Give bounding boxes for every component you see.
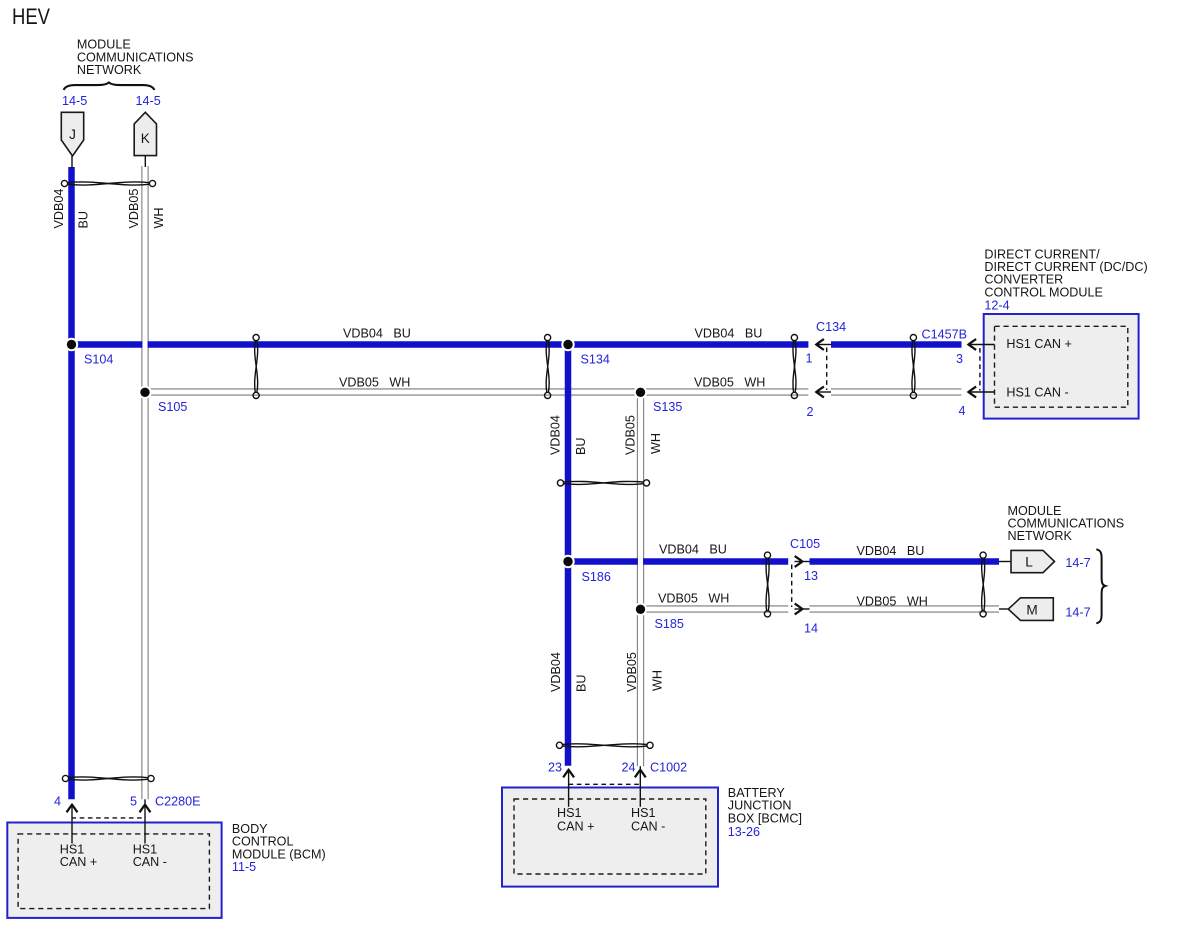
connector C2280E pin 5 arrow and stub into BCM [140, 799, 151, 843]
wire VDB04 BU row1 horizontal [72, 341, 962, 348]
svg-text:14-7: 14-7 [1065, 556, 1090, 570]
svg-text:14: 14 [804, 622, 818, 636]
twisted pair symbol top-left horizontal [61, 180, 155, 186]
connector C1457B dashed line [979, 348, 981, 391]
connector K (from 14-5) [134, 112, 156, 155]
twisted pair symbol vertical at x983 [980, 552, 986, 617]
twisted pair symbol vertical at x913 [910, 335, 916, 399]
svg-text:L: L [1025, 555, 1033, 570]
label MODULE COMMUNICATIONS NETWORK (right) [1008, 504, 1125, 543]
connector K stub wire [144, 156, 146, 168]
connector M (to 14-7) [1008, 598, 1053, 621]
connector J (from 14-5) [61, 112, 83, 156]
svg-text:VDB04 BU: VDB04 BU [695, 327, 763, 341]
svg-text:S186: S186 [582, 570, 611, 584]
pin label HS1 CAN - (BJB) [631, 806, 665, 834]
connector C134 dashed line [826, 348, 828, 391]
svg-text:BU: BU [77, 211, 91, 229]
svg-text:K: K [141, 131, 150, 146]
connector C1457B pin 3 arrow and stub into module [969, 339, 995, 350]
splice S186 [561, 555, 574, 568]
svg-text:WH: WH [649, 433, 663, 454]
svg-text:1: 1 [806, 352, 813, 366]
wire VDB05 WH mid vertical white fill [638, 392, 643, 766]
svg-text:HS1 CAN -: HS1 CAN - [1006, 385, 1068, 399]
wire label VDB04 BU (mid vertical lower) [549, 652, 589, 692]
splice S104 [65, 338, 78, 351]
svg-text:VDB04 BU: VDB04 BU [343, 327, 411, 341]
svg-text:C1002: C1002 [650, 761, 687, 775]
svg-text:14-5: 14-5 [62, 94, 87, 108]
connector C1457B pin 4 arrow and stub into module [969, 387, 995, 398]
module box DC/DC CONVERTER CONTROL MODULE [984, 314, 1139, 419]
svg-text:4: 4 [959, 404, 966, 418]
wire label VDB04 BU (left vertical top) [52, 189, 91, 229]
svg-text:2: 2 [807, 405, 814, 419]
svg-text:13-26: 13-26 [728, 825, 760, 839]
svg-text:VDB04: VDB04 [52, 189, 66, 229]
module box BATTERY JUNCTION BOX [BCMC] [502, 788, 718, 887]
label BODY CONTROL MODULE (BCM) [232, 822, 326, 861]
pin label HS1 CAN - (BCM) [133, 843, 167, 870]
label DIRECT CURRENT/DIRECT CURRENT (DC/DC) CONVERTER CONTROL MODULE [984, 247, 1147, 299]
svg-text:3: 3 [956, 352, 963, 366]
wire VDB05 WH row4 horizontal [641, 606, 1000, 612]
svg-text:S185: S185 [655, 617, 684, 631]
splice S135 [634, 386, 647, 399]
connector C105 pin 14 arrow [795, 604, 810, 615]
connector J stub wire [71, 156, 73, 168]
brace right of L and M connectors [1096, 549, 1105, 623]
svg-text:NETWORK: NETWORK [77, 63, 142, 77]
wire label VDB05 WH (left vertical top) [127, 189, 166, 229]
svg-text:4: 4 [54, 795, 61, 809]
svg-text:VDB05: VDB05 [625, 652, 639, 692]
svg-text:14-5: 14-5 [136, 94, 161, 108]
brace over J and K wires [64, 83, 155, 90]
label MODULE COMMUNICATIONS NETWORK (top) [77, 38, 194, 77]
svg-text:HS1 CAN +: HS1 CAN + [1006, 337, 1071, 351]
pin label HS1 CAN + (BJB) [557, 806, 594, 834]
svg-text:13: 13 [804, 569, 818, 583]
connector M stub wire [999, 608, 1009, 610]
svg-text:CAN +: CAN + [557, 820, 594, 834]
wire label VDB05 WH (mid vertical lower) [625, 652, 665, 692]
twisted pair symbol bottom-mid horizontal [556, 742, 653, 748]
label BATTERY JUNCTION BOX [BCMC] [728, 786, 802, 825]
svg-text:S134: S134 [581, 353, 610, 367]
splice S134 [561, 338, 574, 351]
connector C1002 dashed line [569, 783, 641, 785]
svg-text:J: J [69, 127, 76, 142]
svg-text:VDB05: VDB05 [127, 189, 141, 229]
twisted pair symbol vertical at x767 [764, 552, 770, 617]
connector C1002 pin 23 arrow and stub into BJB [563, 770, 574, 807]
svg-text:VDB05 WH: VDB05 WH [694, 376, 765, 390]
svg-text:S104: S104 [84, 353, 113, 367]
connector C134 pin 1 arrow [816, 339, 831, 350]
connector C105 dashed line [791, 565, 793, 608]
svg-text:C1457B: C1457B [922, 328, 968, 342]
wire VDB04 BU mid vertical [565, 345, 572, 766]
svg-text:WH: WH [651, 670, 665, 691]
svg-text:CAN +: CAN + [60, 855, 97, 869]
svg-text:CONTROL MODULE: CONTROL MODULE [984, 285, 1102, 299]
svg-text:VDB04 BU: VDB04 BU [857, 544, 925, 558]
svg-text:VDB05 WH: VDB05 WH [339, 376, 410, 390]
module box BODY CONTROL MODULE (BCM) [7, 823, 221, 918]
svg-text:HS1: HS1 [557, 806, 582, 820]
svg-text:23: 23 [548, 761, 562, 775]
svg-text:C134: C134 [816, 320, 846, 334]
wire label VDB04 BU (mid vertical upper) [549, 415, 589, 455]
svg-text:C105: C105 [790, 537, 820, 551]
svg-text:VDB05 WH: VDB05 WH [658, 592, 729, 606]
svg-text:VDB04 BU: VDB04 BU [659, 543, 727, 557]
connector C1002 pin 24 arrow and stub into BJB [635, 766, 646, 807]
svg-text:NETWORK: NETWORK [1008, 529, 1073, 543]
twisted pair symbol vertical at x547 [545, 335, 551, 399]
svg-text:14-7: 14-7 [1065, 606, 1090, 620]
svg-text:S105: S105 [158, 400, 187, 414]
svg-text:VDB05: VDB05 [624, 415, 638, 455]
splice S105 [138, 386, 151, 399]
svg-text:CAN -: CAN - [133, 855, 167, 869]
svg-text:BU: BU [575, 675, 589, 693]
svg-text:S135: S135 [653, 400, 682, 414]
connector C105 pin 13 arrow [795, 556, 810, 567]
svg-text:WH: WH [152, 208, 166, 229]
svg-text:BOX [BCMC]: BOX [BCMC] [728, 811, 802, 825]
svg-text:5: 5 [130, 795, 137, 809]
wire VDB05 WH left vertical white fill [142, 166, 147, 799]
twisted pair symbol bottom-left horizontal [62, 775, 154, 781]
svg-text:11-5: 11-5 [232, 860, 256, 874]
wire VDB04 BU left vertical [68, 167, 75, 799]
wire VDB05 WH row2 horizontal [145, 389, 962, 395]
connector L (to 14-7) [1011, 550, 1055, 572]
connector C2280E pin 4 arrow and stub into BCM [67, 805, 78, 844]
svg-text:VDB04: VDB04 [549, 652, 563, 692]
svg-text:VDB05 WH: VDB05 WH [857, 595, 928, 609]
twisted pair symbol vertical at x794 [791, 335, 797, 399]
svg-text:C2280E: C2280E [155, 795, 201, 809]
splice S185 [634, 603, 647, 616]
pin label HS1 CAN + (BCM) [60, 843, 97, 870]
wire VDB04 BU row3 horizontal [568, 558, 999, 565]
svg-text:VDB04: VDB04 [549, 415, 563, 455]
svg-text:12-4: 12-4 [984, 299, 1009, 313]
svg-text:HEV: HEV [12, 4, 50, 29]
connector L stub wire [999, 561, 1011, 563]
svg-text:24: 24 [622, 761, 636, 775]
twisted pair symbol vertical at x256 [253, 335, 259, 399]
connector C134 pin 2 arrow [816, 387, 831, 398]
twisted pair symbol mid horizontal (above S186) [557, 480, 649, 486]
svg-text:HS1: HS1 [631, 806, 656, 820]
svg-text:M: M [1026, 603, 1037, 618]
connector C2280E dashed line [72, 817, 146, 819]
wire label VDB05 WH (mid vertical upper) [624, 415, 664, 455]
wire VDB05 WH mid vertical borders [637, 392, 643, 766]
svg-text:BU: BU [574, 438, 588, 456]
wire VDB05 WH left vertical borders [142, 166, 148, 799]
svg-text:CAN -: CAN - [631, 820, 665, 834]
